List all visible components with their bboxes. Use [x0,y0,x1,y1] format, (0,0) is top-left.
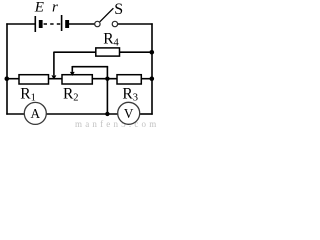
svg-text:4: 4 [114,38,120,49]
svg-text:1: 1 [31,93,36,104]
svg-text:E: E [34,0,44,15]
svg-text:S: S [114,1,123,18]
svg-text:2: 2 [73,93,78,104]
svg-text:V: V [124,106,134,121]
svg-text:A: A [31,106,41,121]
svg-text:3: 3 [133,93,138,104]
svg-text:r: r [52,0,58,15]
svg-text:manfen5.com: manfen5.com [75,119,159,128]
